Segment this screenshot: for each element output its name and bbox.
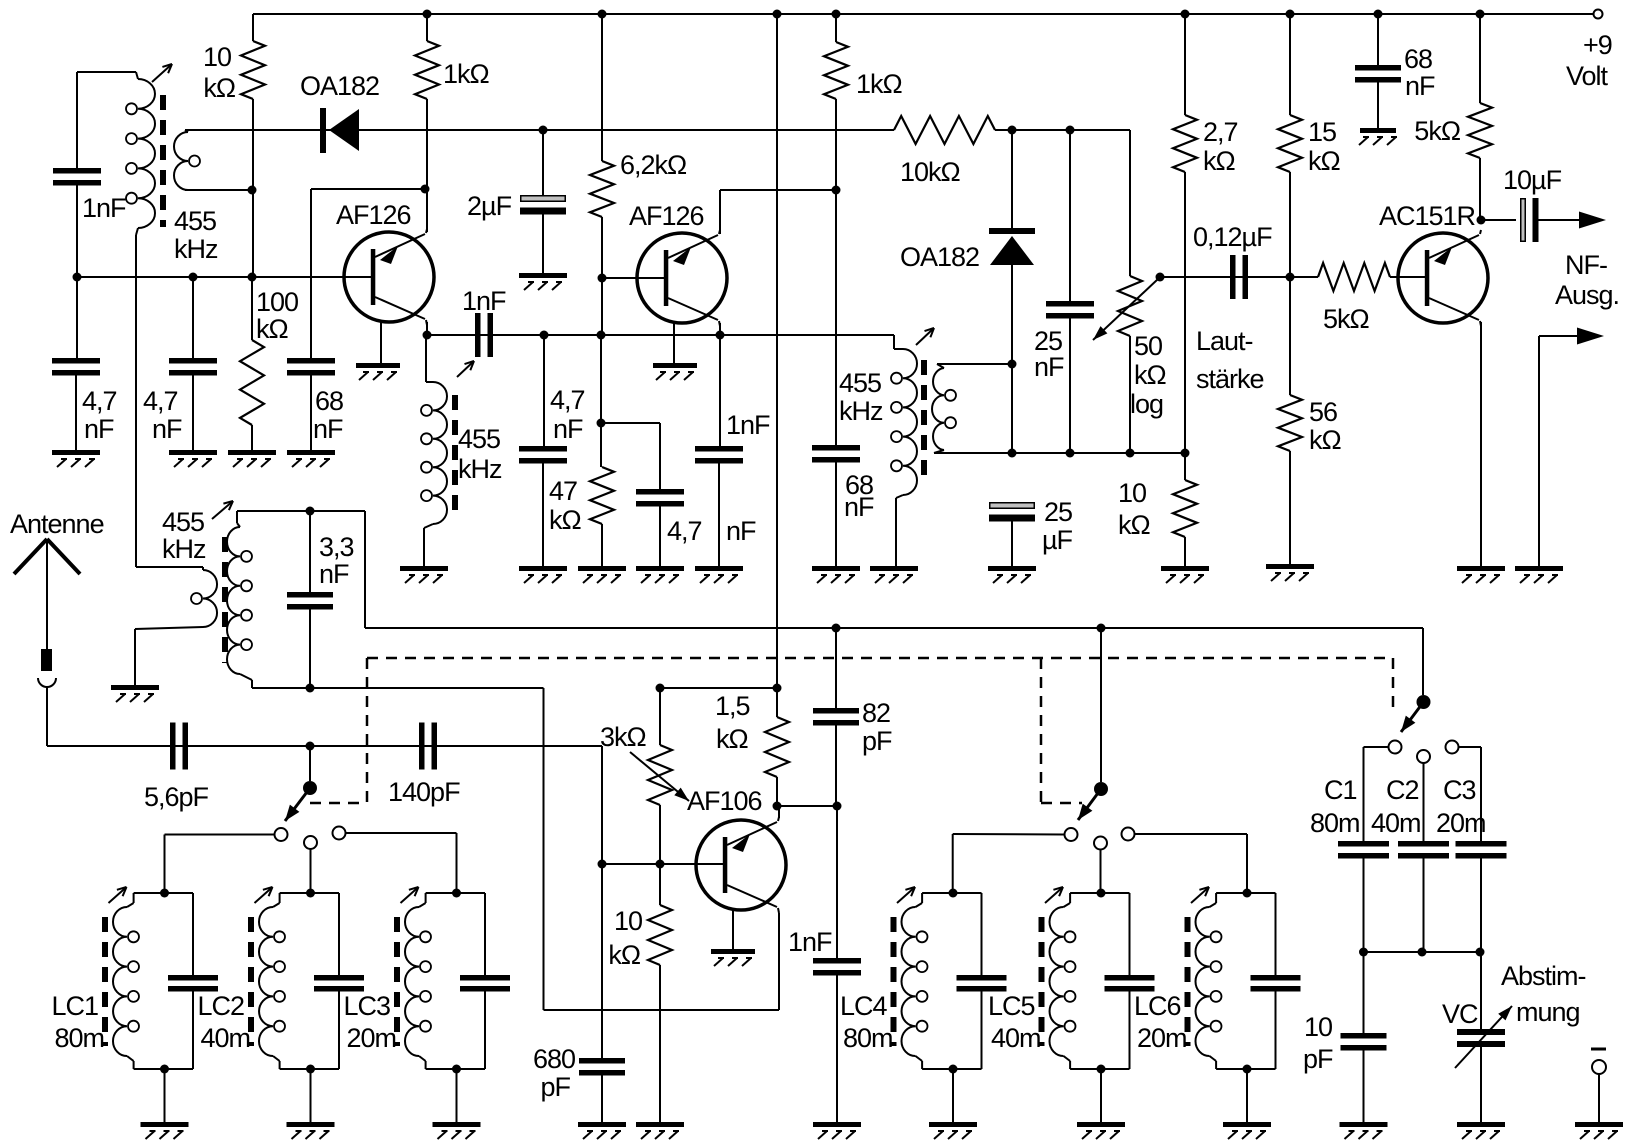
label R9 10 (1118, 478, 1146, 508)
antenna symbol (14, 539, 80, 649)
wire C3 down (1480, 859, 1482, 953)
svg-text:1nF: 1nF (82, 193, 126, 223)
svg-text:AF126: AF126 (336, 200, 411, 230)
wire down to C 68nF-1 (310, 189, 312, 358)
wire to ground (542, 464, 544, 567)
junction tank LC1 bottom (160, 1065, 169, 1074)
svg-text:10kΩ: 10kΩ (900, 157, 961, 187)
tank LC2 cap wires (338, 893, 340, 1069)
tank LC1 cap wires (192, 893, 194, 1069)
tank LC1 coil (113, 893, 139, 1069)
wire rail to R10 (1289, 14, 1291, 115)
junction R 2.7k chain (1181, 449, 1190, 458)
wire to T2 coil (425, 335, 427, 382)
label 680pF pF (540, 1072, 570, 1102)
svg-text:kΩ: kΩ (549, 505, 582, 535)
label T3 kHz (839, 396, 883, 426)
svg-text:C2: C2 (1386, 775, 1419, 805)
capacitor 82pF (813, 708, 859, 726)
tank LC6 capacitor (1251, 975, 1301, 992)
label 1nF-4 (726, 410, 770, 440)
svg-text:10µF: 10µF (1503, 165, 1562, 195)
wire T1 secondary bottom (185, 189, 252, 191)
capacitor 68nF (3) (1355, 65, 1401, 83)
tank LC3 adjust arrow (401, 887, 419, 903)
junction 25uF (1008, 449, 1017, 458)
wire 680pF to ground (601, 1076, 603, 1123)
potentiometer P1 50kOhm track (1118, 276, 1142, 336)
tank LC3 coil (405, 893, 431, 1069)
svg-text:20m: 20m (1137, 1023, 1187, 1053)
label tank LC4 (840, 991, 888, 1021)
svg-text:1nF: 1nF (726, 410, 770, 440)
label R11 kOhm (1309, 425, 1342, 455)
transformer T3 adjust arrow (916, 328, 934, 345)
wire base line y277 (77, 276, 371, 278)
wire R3 to ground (251, 425, 253, 450)
transformer T3 primary coil (891, 335, 917, 566)
resistor R4 6.2kOhm (590, 161, 614, 217)
label R14 kOhm (716, 724, 749, 754)
ground under R5 (578, 566, 626, 583)
wire IF coupling line y335 (427, 334, 894, 336)
capacitor 1nF (T1 primary) (53, 168, 101, 186)
terminal +9 Volt (1594, 10, 1603, 19)
capacitor 4.7nF (4) (636, 489, 684, 507)
wire volume to C 0.12uF (1160, 276, 1318, 278)
wire x543 down to mixer line (543, 688, 545, 1010)
junction 82pF bottom (833, 802, 842, 811)
wire S1b to LC5 (1100, 850, 1102, 894)
svg-text:1nF: 1nF (788, 927, 832, 957)
svg-text:nF: nF (1405, 71, 1435, 101)
potentiometer P1 wiper arrow (1093, 279, 1158, 340)
switch S1b (1065, 782, 1135, 850)
svg-text:OA182: OA182 (300, 71, 379, 101)
dashed link S1d vertical (1392, 658, 1395, 714)
wire to P2 3k (659, 688, 661, 745)
wire bus to 10pF (1363, 952, 1365, 1033)
label 68nF-2 nF (844, 492, 874, 522)
arrow NF output 1 (1579, 212, 1606, 229)
svg-text:1nF: 1nF (462, 286, 506, 316)
label D1 OA182 (300, 71, 379, 101)
svg-text:47: 47 (549, 476, 577, 506)
switch S1a (275, 781, 346, 849)
wire rail to R8 (1184, 14, 1186, 115)
svg-text:Volt: Volt (1566, 61, 1609, 91)
wire T4 secondary top y511 (237, 510, 365, 512)
ground under T4 (111, 685, 159, 702)
capacitor 5.6pF (170, 723, 188, 770)
transformer T4 primary coil (135, 567, 217, 629)
wire Q4 collector down (778, 913, 780, 1010)
wire trimmer bus y952 (1364, 951, 1482, 953)
wire S1d to C3 (1459, 746, 1482, 748)
capacitor C2 trimmer 40m (1398, 841, 1449, 859)
svg-text:82: 82 (862, 698, 890, 728)
svg-text:AF106: AF106 (687, 786, 762, 816)
ground under VC (1457, 1122, 1505, 1139)
svg-text:20m: 20m (347, 1023, 397, 1053)
junction R47k (597, 331, 606, 340)
ground under 25uF (988, 566, 1036, 583)
label T1 kHz (174, 234, 218, 264)
label 68nF-1 nF (313, 414, 343, 444)
wire emitter to 1k/68nF node (720, 189, 836, 191)
ground tank LC2 (287, 1122, 335, 1139)
svg-text:40m: 40m (991, 1023, 1041, 1053)
label 680pF (533, 1044, 575, 1074)
svg-text:kHz: kHz (162, 534, 206, 564)
ground tank LC3 (433, 1122, 481, 1139)
label 25uF uF (1042, 525, 1073, 555)
wire rail to R4 (601, 14, 603, 161)
label R12 5kOhm (1414, 116, 1461, 146)
label R3 100 (256, 287, 298, 317)
wire down to LC6 (1246, 834, 1248, 893)
svg-text:µF: µF (1042, 525, 1073, 555)
svg-text:0,12µF: 0,12µF (1193, 222, 1272, 252)
junction 25nF (1066, 126, 1075, 135)
label 68nF-3 nF (1405, 71, 1435, 101)
svg-text:10: 10 (1118, 478, 1146, 508)
wire 25uF to ground (1011, 515, 1013, 566)
svg-text:5,6pF: 5,6pF (144, 782, 209, 812)
ground under Q3 (1457, 566, 1505, 583)
svg-text:LC2: LC2 (198, 991, 245, 1021)
wire VC to ground (1480, 1047, 1482, 1122)
junction 10uF (1477, 216, 1486, 225)
svg-text:455: 455 (839, 368, 881, 398)
svg-text:OA182: OA182 (900, 242, 979, 272)
label P1 kOhm (1134, 360, 1167, 390)
tank LC2 adjust arrow (255, 887, 273, 903)
svg-text:kHz: kHz (458, 454, 502, 484)
transistor Q3 AC151R (1398, 230, 1488, 326)
wire to C 1nF (76, 72, 78, 168)
svg-text:10: 10 (1304, 1012, 1332, 1042)
wire S1b to LC6 (1135, 833, 1248, 835)
resistor R6 1kOhm (824, 42, 848, 99)
tank LC4 coil (902, 893, 928, 1069)
label 1nF coupling (462, 286, 506, 316)
tank LC6 ground wire (1246, 1069, 1248, 1122)
junction pot wiper (1156, 273, 1165, 282)
capacitor 4.7nF (3) (519, 446, 567, 464)
svg-text:kΩ: kΩ (1134, 360, 1167, 390)
svg-text:nF: nF (1034, 352, 1064, 382)
junction AGC line (248, 273, 257, 282)
wire x365 down (364, 511, 366, 628)
wire down to C 4.7nF-2 (192, 277, 194, 358)
wire AGC to C 2uF (542, 130, 544, 195)
svg-text:2,7: 2,7 (1203, 117, 1238, 147)
capacitor 4.7nF (1) (52, 358, 100, 376)
label T1 455 (174, 206, 216, 236)
capacitor 3.3nF (287, 592, 333, 610)
label tank LC6 band (1137, 1023, 1187, 1053)
arrow NF output 2 (1577, 328, 1604, 345)
svg-text:nF: nF (553, 414, 583, 444)
capacitor 1nF (Q2) (695, 446, 743, 464)
svg-text:C1: C1 (1324, 775, 1357, 805)
ground under R9 (1161, 566, 1209, 583)
resistor R11 56kOhm (1278, 395, 1302, 451)
tank LC1 core (102, 917, 108, 1046)
junction tank LC1 top (160, 889, 169, 898)
svg-text:VC: VC (1442, 999, 1478, 1029)
tank LC4 ground wire (952, 1069, 954, 1122)
ground under 1nF-4 (695, 566, 743, 583)
wire to C 1nF-4 (719, 335, 721, 446)
svg-text:4,7: 4,7 (667, 516, 702, 546)
label tank LC5 (988, 991, 1035, 1021)
junction 68nF node (832, 186, 841, 195)
svg-text:80m: 80m (1310, 808, 1360, 838)
resistor R7 10kOhm (894, 116, 995, 144)
ground under 68nF-3 (1359, 128, 1397, 145)
wire 2uF to ground (542, 208, 544, 273)
svg-text:68: 68 (1404, 44, 1432, 74)
capacitor 4.7nF (2) (169, 358, 217, 376)
tank LC2 bottom rail (280, 1068, 339, 1070)
dashed link S1b vertical (1040, 658, 1043, 803)
junction rail (1374, 10, 1383, 19)
tank LC2 ground wire (310, 1069, 312, 1122)
svg-text:Laut-: Laut- (1196, 326, 1253, 356)
ground Q1 emitter (356, 363, 400, 380)
label R15 kOhm (608, 940, 641, 970)
coil T2 adjust arrow (457, 361, 474, 377)
transformer T1 adjust arrow (152, 64, 172, 82)
label Volt (1566, 61, 1609, 91)
label Abstim- (1501, 961, 1586, 991)
wire R2 bottom to Q1 emitter (426, 99, 428, 232)
label tank LC6 (1134, 991, 1181, 1021)
capacitor 140pF (419, 723, 437, 770)
svg-text:LC3: LC3 (344, 991, 391, 1021)
capacitor 1nF (oscillator) (813, 958, 861, 976)
wire to ground (75, 376, 77, 451)
label 4.7nF-3 nF (553, 414, 583, 444)
svg-text:Abstim-: Abstim- (1501, 961, 1586, 991)
tank LC3 ground wire (456, 1069, 458, 1122)
ground tank LC6 (1223, 1122, 1271, 1139)
label R1 kOhm (203, 73, 236, 103)
capacitor VC tuning (1457, 1029, 1505, 1047)
ground Q4 (711, 949, 755, 966)
capacitor C1 trimmer 80m (1338, 841, 1389, 859)
label R3 kOhm (256, 314, 289, 344)
label 4.7nF-4 nF (726, 516, 756, 546)
svg-text:6,2kΩ: 6,2kΩ (620, 150, 687, 180)
junction rail (423, 10, 432, 19)
junction Q1 collector (423, 331, 432, 340)
wire Q3 collector to ground (1480, 322, 1482, 566)
svg-text:kΩ: kΩ (203, 73, 236, 103)
capacitor 25uF electrolytic (989, 503, 1035, 522)
capacitor 10uF electrolytic (1521, 198, 1539, 242)
wire to ground (718, 464, 720, 567)
wire R14 to emitter line (776, 777, 778, 806)
dashed link S1a horizontal (310, 802, 367, 805)
svg-text:20m: 20m (1436, 808, 1486, 838)
wire 68nF-3 to ground (1377, 83, 1379, 129)
tank LC6 top rail (1216, 892, 1275, 894)
svg-text:NF-: NF- (1565, 250, 1607, 280)
potentiometer P2 wiper arrow (630, 752, 689, 801)
label R15 10 (614, 906, 642, 936)
label C2 40m (1371, 808, 1421, 838)
transistor Q2 AF126 (637, 230, 727, 365)
junction Q2 base (598, 274, 607, 283)
wire down to C3 (1480, 747, 1482, 841)
wire down to LC1 (164, 835, 166, 894)
svg-text:kΩ: kΩ (1118, 510, 1151, 540)
svg-text:LC4: LC4 (840, 991, 888, 1021)
transformer T4 secondary coil (227, 511, 252, 688)
svg-text:4,7: 4,7 (82, 386, 117, 416)
ground output 2 (1515, 566, 1563, 583)
tank LC1 capacitor (168, 975, 218, 992)
junction tank LC5 bottom (1097, 1065, 1106, 1074)
resistor R1 10kOhm (241, 41, 265, 99)
junction base x660 (656, 860, 665, 869)
svg-text:AF126: AF126 (629, 201, 704, 231)
wire oscillator emitter line y806 (777, 805, 837, 807)
svg-text:LC1: LC1 (52, 991, 99, 1021)
junction tank LC4 bottom (949, 1065, 958, 1074)
transformer T1 secondary coil (174, 130, 200, 190)
tank LC1 adjust arrow (109, 887, 127, 903)
wire antenna line y746 (47, 745, 602, 747)
wire to ground (310, 376, 312, 451)
dashed link S1b horizontal (1041, 802, 1082, 805)
svg-text:100: 100 (256, 287, 298, 317)
label 25uF (1044, 497, 1072, 527)
wire C2 down (1423, 859, 1425, 953)
tank LC3 capacitor (460, 975, 510, 992)
junction tank LC4 top (949, 889, 958, 898)
wire Q2 emitter up (719, 190, 721, 234)
label R1 10 (203, 42, 231, 72)
label R6 1kOhm (856, 69, 903, 99)
label 2uF (467, 191, 512, 221)
wire 82pF down (835, 726, 837, 807)
junction 25nF bottom (1066, 449, 1075, 458)
svg-text:kΩ: kΩ (256, 314, 289, 344)
label P2 3kOhm (600, 722, 647, 752)
junction C2 bus (1418, 948, 1427, 957)
tank LC3 bottom rail (426, 1068, 485, 1070)
wire T3 secondary top to D2 (937, 363, 1013, 365)
svg-text:4,7: 4,7 (550, 385, 585, 415)
tank LC4 capacitor (957, 975, 1007, 992)
label Q3 AC151R (1379, 201, 1476, 231)
junction 15k/56k (1286, 273, 1295, 282)
svg-text:kΩ: kΩ (1203, 146, 1236, 176)
svg-text:C3: C3 (1443, 775, 1476, 805)
label 25nF nF (1034, 352, 1064, 382)
label 10pF pF (1303, 1044, 1333, 1074)
junction corner (73, 273, 82, 282)
ground under 10pF (1340, 1122, 1388, 1139)
transformer T3 secondary coil (932, 364, 956, 453)
tank LC1 bottom rail (134, 1068, 193, 1070)
label 10uF (1503, 165, 1562, 195)
wire 82pF node down to 1nF (836, 806, 838, 958)
wire down to volume pot (1129, 130, 1131, 276)
transformer T4 core (222, 537, 228, 663)
label R14 1.5 (715, 691, 750, 721)
junction C3 bus (1476, 948, 1485, 957)
tank LC5 top rail (1070, 892, 1129, 894)
tank LC3 top rail (426, 892, 485, 894)
label Antenne (10, 509, 104, 539)
label 3.3nF (319, 532, 354, 562)
wire 25nF down (1069, 319, 1071, 454)
antenna plug (38, 649, 56, 746)
label +9 (1583, 30, 1612, 60)
junction C1 bus (1359, 948, 1368, 957)
tank LC5 adjust arrow (1045, 887, 1063, 903)
svg-text:kHz: kHz (839, 396, 883, 426)
resistor R10 15kOhm (1278, 115, 1302, 172)
svg-text:stärke: stärke (1196, 364, 1264, 394)
ground under T2 (400, 566, 448, 583)
svg-text:AC151R: AC151R (1379, 201, 1476, 231)
wire S1a to LC1 (165, 834, 275, 836)
switch S1d (1389, 695, 1459, 763)
junction tank LC3 bottom (452, 1065, 461, 1074)
label nF (2) (152, 414, 182, 444)
label C3 (1443, 775, 1476, 805)
capacitor 10pF (1341, 1033, 1387, 1051)
label VC (1442, 999, 1478, 1029)
tank LC3 cap wires (484, 893, 486, 1069)
label 5.6pF (144, 782, 209, 812)
capacitor VC arrow (1455, 1006, 1512, 1068)
wire T1 primary top (77, 71, 136, 73)
svg-text:56: 56 (1309, 397, 1337, 427)
tank LC1 top rail (134, 892, 193, 894)
ground under 680pF (578, 1122, 626, 1139)
svg-text:kΩ: kΩ (716, 724, 749, 754)
wire detector output line y453 (934, 452, 1185, 454)
svg-text:3,3: 3,3 (319, 532, 354, 562)
wire base lead Q2 (602, 277, 665, 279)
svg-text:LC5: LC5 (988, 991, 1035, 1021)
svg-text:1kΩ: 1kΩ (443, 59, 490, 89)
label tank LC5 band (991, 1023, 1041, 1053)
junction rail (832, 10, 841, 19)
junction base x602 (598, 860, 607, 869)
resistor R9 10kOhm (1173, 480, 1197, 537)
tank LC4 cap wires (981, 893, 983, 1069)
label 1nF (82, 193, 126, 223)
svg-text:+9: +9 (1583, 30, 1612, 60)
wire R8 to y453 (1184, 172, 1186, 453)
capacitor 0.12uF (1230, 255, 1248, 299)
svg-text:40m: 40m (1371, 808, 1421, 838)
resistor R8 2.7kOhm (1173, 115, 1197, 172)
junction 82pF (832, 624, 841, 633)
ground under 4.7nF-1 (52, 450, 100, 467)
svg-text:10: 10 (614, 906, 642, 936)
junction x777 (773, 684, 782, 693)
ground under R15 (636, 1122, 684, 1139)
